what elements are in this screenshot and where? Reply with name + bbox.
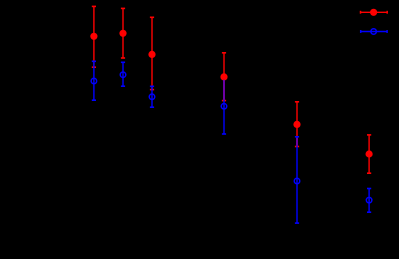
red series point 1 marker bbox=[90, 33, 97, 40]
red series point 3 error bar bbox=[150, 17, 154, 89]
red series point 1 error bar bbox=[92, 6, 96, 67]
blue series point 5 marker bbox=[294, 178, 300, 184]
legend blue series marker bbox=[371, 29, 377, 35]
red series point 6 error bar bbox=[367, 135, 371, 173]
red series point 4 error bar bbox=[222, 53, 226, 101]
blue series point 3 marker bbox=[149, 94, 155, 100]
red series point 5 marker bbox=[293, 121, 300, 128]
blue series point 4 marker bbox=[221, 104, 227, 110]
blue series point 2 error bar bbox=[121, 62, 125, 86]
red series point 2 error bar bbox=[121, 8, 125, 58]
red series point 2 marker bbox=[119, 30, 126, 37]
blue series point 1 error bar bbox=[92, 61, 96, 100]
blue series point 5 error bar bbox=[295, 137, 299, 223]
red series point 4 marker bbox=[220, 73, 227, 80]
red series point 6 marker bbox=[366, 150, 373, 157]
legend blue series sample bbox=[361, 30, 387, 33]
legend red series sample bbox=[361, 11, 388, 14]
blue series point 5 overlap segment bbox=[296, 138, 298, 146]
blue series point 6 marker bbox=[366, 197, 372, 203]
red series point 5 error bar bbox=[295, 102, 299, 147]
blue series point 3 error bar bbox=[150, 86, 154, 107]
red series point 3 marker bbox=[148, 51, 155, 58]
blue series point 4 overlap segment bbox=[223, 80, 225, 100]
blue series point 6 error bar bbox=[367, 189, 371, 213]
blue series point 4 error bar bbox=[222, 80, 226, 134]
blue series point 2 marker bbox=[120, 72, 126, 78]
legend red series marker bbox=[370, 9, 377, 16]
blue series point 1 marker bbox=[91, 78, 97, 84]
